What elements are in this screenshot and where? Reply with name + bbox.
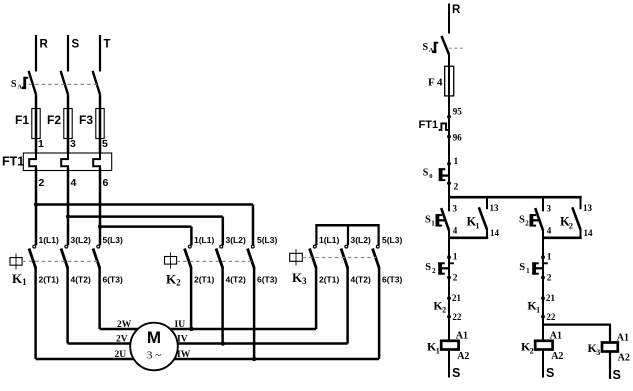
svg-text:4(T2): 4(T2) <box>226 275 246 285</box>
svg-text:2(T1): 2(T1) <box>319 275 339 285</box>
svg-text:S: S <box>11 79 17 90</box>
svg-text:A1: A1 <box>617 333 629 344</box>
svg-text:1(L1): 1(L1) <box>319 235 339 245</box>
svg-text:IU: IU <box>175 320 186 330</box>
svg-text:F1: F1 <box>15 113 29 127</box>
svg-text:21: 21 <box>546 293 556 303</box>
svg-text:M: M <box>147 328 161 347</box>
svg-text:3: 3 <box>596 348 600 357</box>
svg-text:1: 1 <box>526 267 530 275</box>
svg-text:2: 2 <box>530 347 534 356</box>
svg-text:1: 1 <box>476 222 480 231</box>
svg-text:1: 1 <box>436 347 440 356</box>
svg-text:2: 2 <box>432 267 436 275</box>
svg-text:95: 95 <box>453 107 463 117</box>
svg-text:1(L1): 1(L1) <box>194 235 214 245</box>
svg-text:2: 2 <box>547 274 552 284</box>
svg-text:F2: F2 <box>47 113 61 127</box>
svg-text:5: 5 <box>102 138 108 150</box>
svg-text:2: 2 <box>453 274 458 284</box>
svg-text:3(L2): 3(L2) <box>226 235 246 245</box>
svg-text:S: S <box>425 262 431 273</box>
svg-text:S: S <box>425 214 431 225</box>
svg-text:T: T <box>104 39 111 51</box>
svg-text:3 ~: 3 ~ <box>147 350 161 362</box>
svg-text:A1: A1 <box>456 331 468 342</box>
svg-text:1: 1 <box>431 219 435 227</box>
svg-text:2: 2 <box>454 182 459 192</box>
svg-text:4: 4 <box>547 226 552 236</box>
svg-text:A1: A1 <box>550 331 562 342</box>
svg-text:2(T1): 2(T1) <box>194 275 214 285</box>
svg-text:0: 0 <box>429 173 432 180</box>
svg-text:3: 3 <box>453 204 458 214</box>
svg-text:21: 21 <box>452 293 462 303</box>
svg-text:F3: F3 <box>79 113 93 127</box>
svg-text:2(T1): 2(T1) <box>39 275 59 285</box>
svg-text:IV: IV <box>177 334 188 344</box>
svg-text:22: 22 <box>452 312 462 322</box>
svg-text:R: R <box>452 4 461 16</box>
svg-text:A2: A2 <box>618 353 630 364</box>
svg-text:1: 1 <box>453 253 458 263</box>
svg-text:1: 1 <box>38 138 44 150</box>
svg-text:13: 13 <box>583 203 593 213</box>
svg-text:2: 2 <box>39 177 45 189</box>
svg-text:2U: 2U <box>115 350 127 360</box>
svg-text:R: R <box>40 39 49 51</box>
svg-text:2: 2 <box>442 306 446 315</box>
svg-text:6(T3): 6(T3) <box>257 275 277 285</box>
svg-text:1: 1 <box>547 253 552 263</box>
svg-text:6(T3): 6(T3) <box>103 275 123 285</box>
svg-text:3(L2): 3(L2) <box>351 235 371 245</box>
svg-text:4(T2): 4(T2) <box>351 275 371 285</box>
svg-text:6: 6 <box>103 177 109 189</box>
svg-text:4: 4 <box>71 177 77 189</box>
svg-text:96: 96 <box>453 133 463 143</box>
svg-text:2: 2 <box>525 219 529 227</box>
svg-text:S: S <box>613 368 621 382</box>
svg-text:6(T3): 6(T3) <box>382 275 402 285</box>
svg-text:1: 1 <box>454 157 459 167</box>
svg-text:S: S <box>546 366 554 380</box>
svg-text:1: 1 <box>536 306 540 315</box>
svg-text:F 4: F 4 <box>428 77 443 89</box>
svg-text:5(L3): 5(L3) <box>103 235 123 245</box>
svg-text:3: 3 <box>547 204 552 214</box>
svg-text:A2: A2 <box>551 351 563 362</box>
svg-text:S: S <box>519 262 525 273</box>
svg-text:3(L2): 3(L2) <box>71 235 91 245</box>
svg-text:S: S <box>423 42 429 53</box>
svg-text:14: 14 <box>490 228 500 238</box>
svg-text:S: S <box>452 366 460 380</box>
svg-text:FT1: FT1 <box>419 119 439 131</box>
svg-text:13: 13 <box>490 203 500 213</box>
svg-text:2V: 2V <box>116 334 128 344</box>
svg-text:2: 2 <box>569 222 573 231</box>
svg-text:4: 4 <box>453 226 458 236</box>
svg-text:FT1: FT1 <box>2 155 24 169</box>
svg-text:3: 3 <box>70 138 76 150</box>
svg-text:S: S <box>519 214 525 225</box>
svg-text:22: 22 <box>546 312 556 322</box>
svg-text:A2: A2 <box>457 351 469 362</box>
svg-text:IW: IW <box>177 350 191 360</box>
svg-text:S: S <box>72 39 80 51</box>
svg-text:A: A <box>17 84 22 91</box>
svg-text:5(L3): 5(L3) <box>257 235 277 245</box>
svg-text:14: 14 <box>584 228 594 238</box>
svg-text:1(L1): 1(L1) <box>39 235 59 245</box>
svg-text:5(L3): 5(L3) <box>382 235 402 245</box>
svg-text:S: S <box>423 167 429 178</box>
svg-text:4(T2): 4(T2) <box>71 275 91 285</box>
svg-text:2W: 2W <box>117 320 132 330</box>
